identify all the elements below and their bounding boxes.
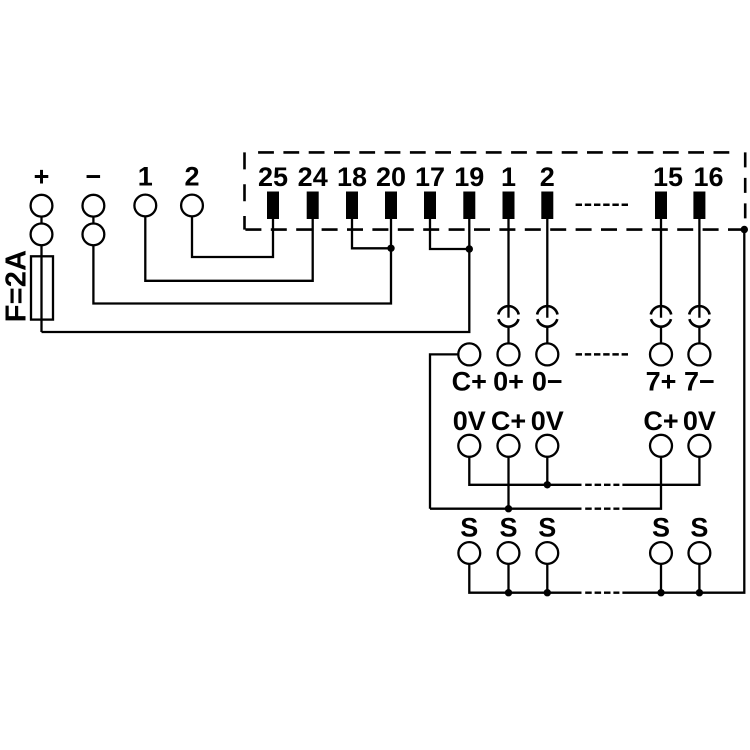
wire fuse to pin 19: [42, 219, 470, 332]
pin 20 label: [376, 162, 406, 192]
terminal + circle b: [31, 224, 53, 246]
plug-socket connector X3: [651, 306, 671, 327]
fuse F=2A wire through: [40, 245, 42, 332]
wire 0V a drop: [469, 457, 581, 485]
svg-text:+: +: [34, 162, 50, 192]
connector box dashed bottom border: [245, 228, 746, 231]
label C+ row2 c15: [643, 406, 678, 436]
svg-text:1: 1: [138, 162, 153, 192]
label 0V row2 c19: [453, 406, 486, 436]
svg-text:18: 18: [337, 162, 367, 192]
wire socket X2 to 0-: [546, 327, 548, 344]
pin 25: [267, 192, 279, 220]
label 0-: [532, 366, 563, 396]
wire S4 drop: [660, 564, 662, 593]
label 0+: [493, 366, 524, 396]
svg-text:S: S: [652, 513, 670, 543]
wire pin 17 to node J2: [430, 219, 469, 249]
terminal S circle 2: [498, 542, 520, 564]
terminal + circle a: [31, 195, 53, 217]
wire C+ b drop: [507, 457, 509, 509]
node J2 junction dot: [466, 245, 473, 252]
label C+ row1: [452, 366, 487, 396]
pin row ellipsis: [576, 204, 629, 207]
svg-text:15: 15: [653, 162, 683, 192]
connector box dashed top border: [258, 151, 737, 154]
svg-text:0−: 0−: [532, 366, 563, 396]
svg-text:C+: C+: [643, 406, 678, 436]
terminal 0+ circle: [498, 343, 520, 365]
pin 24: [307, 192, 319, 220]
svg-text:−: −: [86, 162, 102, 192]
svg-text:S: S: [538, 513, 556, 543]
label 7+: [646, 366, 677, 396]
svg-text:2: 2: [184, 162, 199, 192]
pin 1: [503, 192, 515, 220]
terminal 0V circle a: [458, 435, 480, 457]
0V bus dashed middle: [585, 484, 619, 486]
terminal S circle 1: [458, 542, 480, 564]
svg-text:F=2A: F=2A: [0, 250, 32, 323]
node C+ bus dot: [505, 505, 512, 512]
wire terminal 1 to pin 24: [145, 216, 312, 280]
pin 16: [693, 192, 705, 220]
svg-text:20: 20: [376, 162, 406, 192]
node S3 dot: [544, 589, 551, 596]
wire - circles link: [92, 217, 94, 224]
pin 15: [655, 192, 667, 220]
pin 15 label: [653, 162, 683, 192]
label 0V row2 c16: [683, 406, 716, 436]
wire pin 16 down: [698, 219, 700, 318]
pin 24 label: [298, 162, 328, 192]
label 7-: [684, 366, 715, 396]
terminal S circle 5: [689, 542, 711, 564]
wire pin 2 down: [546, 219, 548, 318]
label C+ row2 c1: [491, 406, 526, 436]
wire pin 1 down: [507, 219, 509, 318]
terminal 7+ circle: [650, 343, 672, 365]
svg-text:1: 1: [501, 162, 516, 192]
C+ bus dashed middle: [585, 508, 619, 510]
terminal S circle 3: [536, 542, 558, 564]
label 0V row2 c2: [531, 406, 564, 436]
node S2 dot: [505, 589, 512, 596]
wire pin 18 to node J1: [352, 219, 391, 248]
svg-text:S: S: [460, 513, 478, 543]
node S5 dot: [696, 589, 703, 596]
wire S3 drop: [546, 564, 548, 593]
fuse F=2A value label: [0, 250, 32, 323]
terminal - label: [86, 162, 102, 192]
terminal 7- circle: [688, 343, 710, 365]
svg-text:0V: 0V: [683, 406, 716, 436]
terminal 2 circle: [181, 195, 203, 217]
node S4 dot: [657, 589, 664, 596]
0V bus right: [622, 457, 699, 485]
terminal 1 label: [138, 162, 153, 192]
pin 20: [385, 192, 397, 220]
wire socket X1 to 0+: [507, 327, 509, 344]
terminal 1 circle: [134, 195, 156, 217]
label S5: [690, 513, 708, 543]
C+ bus left: [430, 508, 582, 510]
label S2: [499, 513, 517, 543]
svg-text:25: 25: [258, 162, 288, 192]
terminal 2 label: [184, 162, 199, 192]
wire terminal 2 to pin 25: [192, 216, 273, 257]
plug-socket connector X2: [537, 306, 557, 327]
svg-text:24: 24: [298, 162, 328, 192]
row1 ellipsis: [576, 353, 629, 356]
svg-text:C+: C+: [452, 366, 487, 396]
node J1 junction dot: [387, 245, 394, 252]
pin 2 label: [540, 162, 555, 192]
terminal - circle b: [83, 224, 105, 246]
wire socket X3 to 7+: [660, 327, 662, 344]
pin 17 label: [415, 162, 445, 192]
label S4: [652, 513, 670, 543]
connector box dashed right border: [744, 152, 747, 229]
plug-socket connector X1: [498, 306, 518, 327]
pin 1 label: [501, 162, 516, 192]
svg-text:S: S: [499, 513, 517, 543]
S bus left with S1 drop: [469, 564, 581, 593]
svg-text:7+: 7+: [646, 366, 677, 396]
svg-text:C+: C+: [491, 406, 526, 436]
wire C+ row1 to C+ bus: [430, 354, 458, 508]
terminal C+ circle row1: [458, 343, 480, 365]
svg-text:16: 16: [693, 162, 723, 192]
pin 18 label: [337, 162, 367, 192]
terminal 0V circle e: [688, 435, 710, 457]
S bus right riser to connector box: [622, 230, 744, 593]
pin 18: [346, 192, 358, 220]
wire S2 drop: [507, 564, 509, 593]
wire S5 drop: [698, 564, 700, 593]
pin 19 label: [454, 162, 484, 192]
terminal - circle a: [83, 195, 105, 217]
terminal C+ circle b: [498, 435, 520, 457]
pin 25 label: [258, 162, 288, 192]
wire pin 15 down: [660, 219, 662, 318]
C+ bus right: [622, 457, 661, 509]
node shield dot on box: [741, 226, 748, 233]
svg-text:S: S: [690, 513, 708, 543]
svg-text:0+: 0+: [493, 366, 524, 396]
node 0V bus dot: [544, 481, 551, 488]
svg-text:7−: 7−: [684, 366, 715, 396]
label S1: [460, 513, 478, 543]
terminal C+ circle d: [650, 435, 672, 457]
pin 2: [541, 192, 553, 220]
S bus dashed middle: [585, 592, 619, 594]
svg-text:0V: 0V: [531, 406, 564, 436]
terminal S circle 4: [650, 542, 672, 564]
pin 19: [463, 192, 475, 220]
plug-socket connector X4: [689, 306, 709, 327]
svg-text:0V: 0V: [453, 406, 486, 436]
wire terminal - to pin 20: [93, 219, 391, 304]
pin 17: [424, 192, 436, 220]
fuse F=2A body: [31, 256, 53, 319]
terminal + label: [34, 162, 50, 192]
wire socket X4 to 7-: [698, 327, 700, 344]
label S3: [538, 513, 556, 543]
terminal 0V circle c: [536, 435, 558, 457]
wire 0V c drop: [546, 457, 548, 485]
pin 16 label: [693, 162, 723, 192]
wire + circles link: [40, 217, 42, 224]
svg-text:2: 2: [540, 162, 555, 192]
connector box dashed left border: [243, 152, 246, 229]
terminal 0- circle: [536, 343, 558, 365]
svg-text:19: 19: [454, 162, 484, 192]
svg-text:17: 17: [415, 162, 445, 192]
